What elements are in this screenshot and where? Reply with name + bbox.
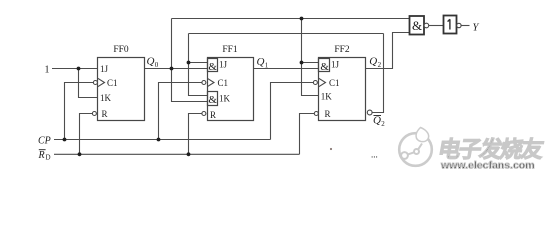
node J/K=1 junction: [77, 67, 81, 71]
watermark logo: [399, 128, 432, 166]
triangle FF1 C1: [207, 78, 214, 86]
bubble inverter output: [457, 23, 461, 27]
wire top bus Q0 to AND gate: [172, 18, 410, 20]
svg-text:1: 1: [45, 64, 50, 75]
svg-text:R: R: [325, 109, 331, 119]
gate inverter (1) top right: [444, 16, 457, 34]
svg-text:Y: Y: [473, 22, 480, 33]
svg-text:FF2: FF2: [334, 45, 350, 55]
flip-flop FF0 box: [98, 58, 145, 121]
svg-text:R: R: [102, 109, 108, 119]
node RD junction FF0: [78, 152, 82, 156]
wire CP bus: [54, 139, 271, 141]
flip-flop FF2 box: [319, 58, 366, 121]
svg-text:R: R: [38, 150, 45, 161]
svg-text:电子发烧友: 电子发烧友: [436, 136, 546, 162]
svg-text:Q: Q: [147, 56, 155, 68]
wire Q2bar vertical to FF1 J-AND and K-AND: [189, 34, 208, 96]
wire Q2 output up to AND gate: [366, 33, 410, 69]
flip-flop FF1 box: [208, 58, 254, 121]
bubbles: clock inputs: [92, 23, 461, 115]
wire 1-to-1K vertical: [79, 69, 98, 98]
bubble FF2 C1: [313, 81, 317, 85]
bubble AND output: [424, 23, 429, 28]
svg-text:1K: 1K: [100, 93, 112, 103]
wire FF1 C1 feed from CP: [159, 83, 202, 140]
clock edge triangles: [98, 78, 326, 86]
wire Q1 output to FF2 J-AND: [254, 68, 319, 70]
svg-text:&: &: [320, 61, 329, 73]
wire RD bus: [54, 153, 300, 155]
wire Q2bar bus (second line): [189, 33, 384, 35]
wire inverter output to Y: [461, 25, 469, 27]
wire Q0 vertical up to top bus and down to FF1 K-AND: [172, 19, 208, 102]
wire AND gate output to inverter: [429, 25, 444, 27]
svg-text:Q: Q: [373, 115, 381, 127]
bubble FF1 C1: [202, 81, 206, 85]
svg-text:Q: Q: [257, 56, 265, 68]
svg-text:1K: 1K: [219, 94, 231, 104]
svg-text:1: 1: [265, 62, 269, 70]
node top bus junction: [300, 17, 304, 21]
svg-text:C1: C1: [218, 78, 229, 88]
label 1 of inverter: [448, 19, 450, 29]
wire branch to FF1 J-AND top input: [189, 62, 208, 64]
wire FF2 R feed from RD end: [300, 114, 315, 155]
svg-text:&: &: [208, 94, 217, 106]
bubble FF2 R: [314, 112, 318, 116]
node 1 constant input wire to FF0 1J: [52, 68, 98, 70]
svg-text:...: ...: [371, 150, 378, 160]
wire FF2 C1 feed from CP end: [271, 83, 314, 140]
bubble FF0 C1: [93, 81, 97, 85]
svg-text:0: 0: [155, 61, 159, 69]
wire FF1 R feed from RD: [189, 114, 202, 155]
svg-text:2: 2: [381, 120, 385, 128]
svg-text:1K: 1K: [321, 92, 333, 102]
svg-text:2: 2: [378, 61, 382, 69]
triangle FF0 C1: [98, 78, 105, 86]
node CP junction FF0: [63, 138, 67, 142]
bubble FF1 R: [202, 112, 206, 116]
svg-text:&: &: [208, 61, 217, 73]
svg-text:FF1: FF1: [222, 45, 238, 55]
bubble FF0 R: [92, 112, 96, 116]
svg-text:1J: 1J: [331, 60, 340, 70]
svg-text:Q: Q: [369, 56, 377, 68]
svg-text:FF0: FF0: [113, 45, 129, 55]
node Q0 junction: [170, 67, 174, 71]
svg-text:R: R: [210, 110, 216, 120]
svg-text:C1: C1: [107, 78, 118, 88]
svg-text:www.elecfans.com: www.elecfans.com: [440, 160, 535, 172]
wire Q2bar output to bus: [372, 34, 383, 113]
svg-text:1J: 1J: [219, 60, 228, 70]
svg-text:1J: 1J: [100, 64, 109, 74]
wire branch to FF2 J-AND top input: [302, 62, 319, 64]
wire Q0 output to FF1 J-AND: [145, 68, 208, 70]
wire FF0 R feed from RD: [80, 114, 93, 155]
svg-text:C1: C1: [329, 78, 340, 88]
node CP junction FF1: [157, 138, 161, 142]
svg-text:CP: CP: [38, 135, 51, 146]
watermark chinese text: [436, 136, 546, 162]
triangle FF2 C1: [319, 78, 326, 86]
svg-text:&: &: [412, 18, 422, 33]
node Q0 branch junction FF2: [300, 61, 304, 65]
bubble FF2 Qbar output: [367, 110, 372, 115]
artifact dot: [330, 148, 332, 150]
wire Q0 vertical at FF2 down to 1K: [302, 19, 319, 96]
wire FF0 C1 feed from CP: [65, 83, 94, 140]
node Q2bar branch junction FF1: [187, 61, 191, 65]
node RD junction FF1: [187, 152, 191, 156]
gate AND (&) top right: [410, 16, 425, 35]
svg-text:D: D: [46, 154, 51, 162]
